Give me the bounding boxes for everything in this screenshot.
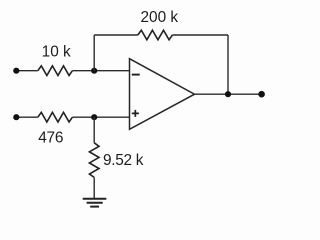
op-amp U1 [130, 59, 195, 130]
node output junction [225, 91, 231, 97]
wire: feedback down to output node [227, 35, 229, 94]
ground [83, 199, 107, 207]
wire: feedback rail left segment [94, 34, 138, 36]
node output terminal [258, 91, 265, 98]
op-amp plus sign [132, 110, 139, 117]
svg-text:476: 476 [38, 129, 63, 146]
svg-text:10 k: 10 k [42, 43, 71, 60]
wire: junction up to feedback rail [93, 35, 95, 71]
svg-text:200 k: 200 k [140, 9, 178, 26]
wire: junction down to R4 [93, 117, 95, 143]
svg-text:9.52 k: 9.52 k [103, 152, 144, 169]
node input terminal V1 [13, 68, 19, 74]
node input terminal V2 [13, 114, 19, 120]
wire: op-amp output [195, 93, 262, 95]
resistor R3 476 [38, 112, 73, 122]
node B non-inverting-input junction [91, 114, 97, 120]
resistor R4 9.52 k (vertical) [89, 143, 99, 178]
node A inverting-input junction [91, 68, 97, 74]
resistor R1 10 k [38, 66, 73, 76]
wire: R4 to ground [93, 177, 95, 198]
wire: R1 to inverting node [72, 70, 129, 72]
wire: R3 to non-inverting node [72, 116, 129, 118]
wire: top input lead left [16, 70, 38, 72]
resistor R2 200 k [138, 30, 173, 40]
wire: feedback rail right segment [172, 34, 228, 36]
wire: bottom input lead left [16, 116, 38, 118]
op-amp minus sign [132, 74, 140, 76]
